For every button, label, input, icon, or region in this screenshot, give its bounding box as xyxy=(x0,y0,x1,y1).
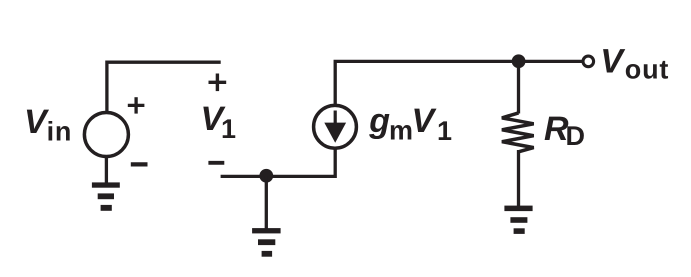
ground middle xyxy=(252,228,281,257)
resistor RD zigzag xyxy=(502,113,534,152)
svg-text:g: g xyxy=(368,102,390,140)
ground under RD xyxy=(504,206,532,234)
node junction dot on bottom rail xyxy=(259,169,273,183)
svg-text:D: D xyxy=(566,121,586,151)
wire current source top up and right rail to output xyxy=(335,61,582,106)
svg-text:out: out xyxy=(625,55,669,85)
wire junction down to resistor xyxy=(517,61,520,113)
svg-text:m: m xyxy=(389,116,413,146)
label gmV1 xyxy=(368,102,452,146)
wire Vin bottom to ground xyxy=(105,155,108,183)
open terminal circle Vout xyxy=(583,56,594,67)
current source arrow xyxy=(324,111,346,143)
minus sign of V1 xyxy=(208,161,224,165)
current source gmV1 circle xyxy=(314,105,357,148)
wire top-left rail from Vin top to gate terminal xyxy=(107,62,221,113)
label Vin xyxy=(24,103,72,147)
label Vout xyxy=(600,43,669,85)
svg-text:in: in xyxy=(47,117,73,147)
minus sign of Vin xyxy=(131,162,148,166)
node junction dot at drain/output xyxy=(512,54,526,68)
label V1 xyxy=(201,100,237,144)
svg-text:1: 1 xyxy=(437,116,452,146)
ground under Vin xyxy=(92,182,120,210)
svg-text:1: 1 xyxy=(221,114,236,144)
wire resistor bottom to ground xyxy=(517,150,520,206)
wire bottom rail from V1 minus node to current source bottom xyxy=(221,148,336,176)
plus sign of V1 xyxy=(209,74,227,92)
svg-text:V: V xyxy=(600,43,626,81)
plus sign of Vin xyxy=(128,97,145,113)
svg-text:V: V xyxy=(412,102,438,140)
voltage source Vin xyxy=(84,113,128,157)
label RD xyxy=(544,110,585,151)
wire junction to middle ground xyxy=(265,176,268,229)
